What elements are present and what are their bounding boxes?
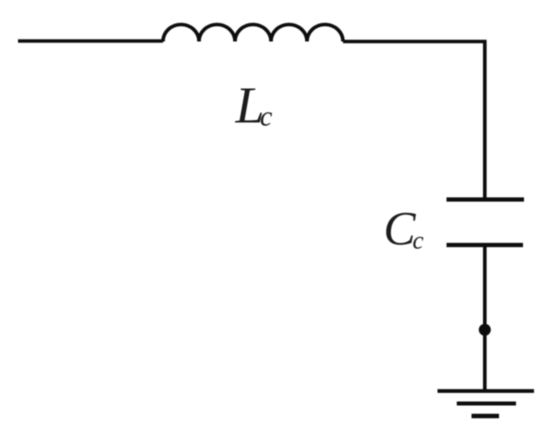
svg-text:Lc: Lc xyxy=(235,78,273,135)
svg-text:Cc: Cc xyxy=(384,203,424,256)
